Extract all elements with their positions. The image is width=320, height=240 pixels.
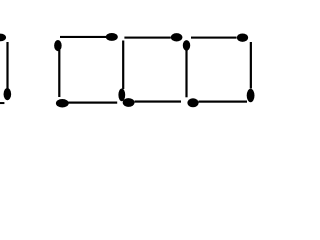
square 1 top match (head at right)	[60, 36, 107, 38]
square 1 left vertical match (head at top)	[54, 40, 62, 51]
wire: cropped bottom-left horizontal match stick	[0, 102, 4, 104]
square 3 top match (head at right)	[191, 37, 237, 39]
shared vertical match squares 1/2 (head at bottom)	[122, 41, 124, 90]
square 3 bottom match (head at left)	[187, 98, 198, 107]
square 1 bottom match (head at left)	[56, 99, 69, 108]
match head, top-left cropped horizontal match	[0, 34, 6, 42]
square 2 top match (head at right)	[124, 37, 170, 39]
square 3 right vertical match (head at bottom)	[250, 42, 252, 89]
vertical match, left cropped square right side (head at bottom)	[6, 42, 8, 89]
square 2 bottom match (head at left)	[123, 98, 135, 107]
shared vertical match squares 2/3 (head at top)	[183, 40, 190, 51]
